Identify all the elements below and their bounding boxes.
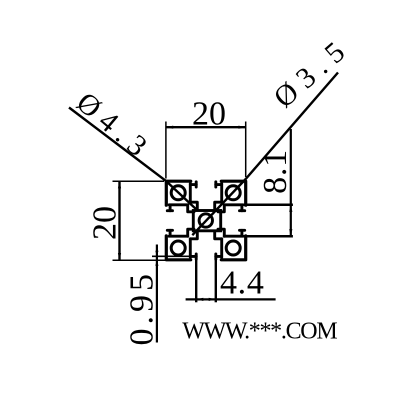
dim top 20: left arrowhead — [166, 126, 173, 129]
dim bottom 4.4: right arrowhead — [209, 298, 216, 301]
center hole — [199, 214, 212, 227]
dim right 8.1: bottom extension line — [224, 235, 293, 238]
dim right 8.1: top arrowhead — [289, 205, 292, 212]
dim 0.95: dimension line — [156, 245, 158, 343]
left T-slot internals — [167, 205, 194, 236]
dim right 8.1: bottom arrowhead — [289, 229, 292, 236]
svg-text:4.4: 4.4 — [220, 264, 265, 301]
top T-slot internals — [190, 182, 221, 209]
dim left 20: top arrowhead — [118, 181, 121, 188]
profile outer corner bottom-right — [221, 236, 245, 260]
dim bottom 4.4: right extension line — [215, 254, 217, 302]
svg-text:20: 20 — [192, 96, 226, 133]
dim left 20: bottom extension line — [113, 259, 167, 261]
dim top 20: right extension line — [245, 122, 247, 178]
dim bottom 4.4: dimension line — [186, 298, 276, 300]
dim bottom 4.4: left arrowhead — [196, 298, 203, 301]
svg-text:20: 20 — [87, 206, 124, 240]
corner hole top-right — [226, 186, 240, 200]
dim 0.95: top extension line — [152, 255, 190, 257]
profile outer corner bottom-left — [166, 236, 190, 260]
bottom T-slot internals — [190, 233, 221, 260]
corner hole bottom-right — [226, 241, 240, 255]
center core block — [193, 211, 220, 231]
leader line diameter 3.5 — [192, 73, 338, 236]
dim 0.95: lower arrowhead — [155, 260, 158, 266]
corner hole top-left — [171, 186, 185, 200]
corner hole bottom-left — [171, 241, 185, 255]
svg-text:8.1: 8.1 — [257, 149, 294, 194]
profile outer corner top-right — [221, 181, 245, 205]
profile outer corner top-left — [166, 181, 245, 260]
dim right 8.1: top extension line — [243, 204, 293, 207]
dim left 20: dimension line — [118, 181, 120, 260]
svg-text:0.95: 0.95 — [124, 270, 161, 346]
svg-text:WWW.***.COM: WWW.***.COM — [182, 318, 337, 344]
dim top 20: dimension line — [166, 126, 245, 128]
leader line diameter 4.3 — [69, 108, 197, 210]
dim top 20: right arrowhead — [239, 126, 246, 129]
dim left 20: bottom arrowhead — [118, 253, 121, 260]
dim right 8.1: dimension line — [290, 129, 292, 236]
right T-slot internals — [218, 205, 245, 236]
dim 0.95: upper arrowhead — [155, 251, 158, 256]
dim bottom 4.4: left extension line — [195, 254, 197, 302]
dim left 20: top extension line — [113, 180, 165, 182]
dim top 20: left extension line — [165, 122, 167, 179]
